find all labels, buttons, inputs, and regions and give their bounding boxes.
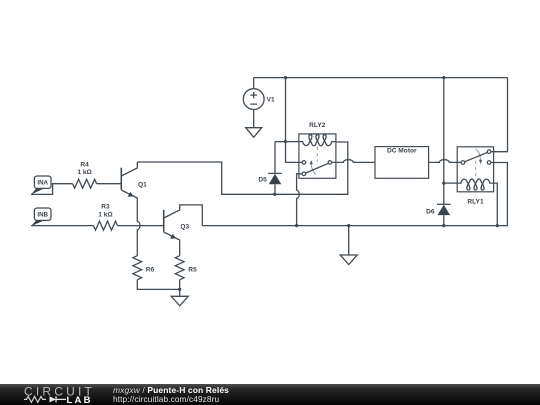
relay RLY2 <box>299 122 336 178</box>
flag INA <box>31 176 51 195</box>
wire ground stem <box>348 226 350 255</box>
logo resistor-diode <box>24 396 46 402</box>
svg-text:Q3: Q3 <box>180 224 189 231</box>
ground symbol lower left <box>171 296 188 306</box>
svg-text:R3: R3 <box>101 203 110 210</box>
node junction coil-right drop on rail <box>496 224 499 227</box>
voltage source V1 <box>243 78 275 128</box>
svg-text:RLY2: RLY2 <box>309 122 326 129</box>
svg-text:D6: D6 <box>426 208 435 215</box>
svg-text:RLY1: RLY1 <box>467 198 484 205</box>
svg-text:LAB: LAB <box>67 395 93 405</box>
wire R4 to Q1 base <box>97 183 121 185</box>
node junction RLY2 coil left <box>284 140 287 143</box>
svg-text:INA: INA <box>37 179 48 186</box>
wire Q1 collector to RLY2 coil right (via D5 anode row) <box>137 142 347 194</box>
wire top rail V+ <box>254 77 508 79</box>
wire RLY2 common to DC Motor left (hop over x=347.8) <box>332 160 375 163</box>
dashed actuator line RLY2 <box>316 147 318 162</box>
wire tee to RLY1 coil <box>444 182 457 184</box>
svg-text:DC Motor: DC Motor <box>387 147 417 154</box>
resistor R4 <box>73 162 97 189</box>
block DC Motor <box>375 147 429 179</box>
switch arm RLY2 <box>306 163 329 173</box>
contact terminals RLY1 <box>461 161 465 165</box>
diode D5 <box>258 142 281 195</box>
svg-text:INB: INB <box>37 211 48 218</box>
wire Q3 emitter to R5 <box>179 241 181 255</box>
node junction RLY1 coil left <box>442 182 445 185</box>
svg-text:V1: V1 <box>267 97 275 104</box>
node junction D5 anode <box>273 193 276 196</box>
wire INA to R4 <box>31 184 73 195</box>
arrow actuator RLY1 <box>476 149 481 160</box>
arrow actuator RLY2 <box>311 164 316 174</box>
svg-text:1 kΩ: 1 kΩ <box>98 211 113 218</box>
dashed actuator line RLY1 <box>475 161 477 178</box>
wire R3 to Q3 base <box>118 225 164 227</box>
wire vertical x=443.8 V+ to RLY1 coil left and D6 <box>443 78 445 205</box>
coil RLY1 <box>457 179 493 190</box>
svg-text:R5: R5 <box>188 266 197 273</box>
wire RLY2 coil left tee to D5 cathode <box>275 141 299 143</box>
ground under V1 <box>246 128 262 138</box>
wire Q1 emitter down to R6 (hop over base row of Q3) <box>137 199 140 255</box>
node junction top rail at x=285.5 <box>284 76 287 79</box>
coil RLY2 <box>299 135 336 146</box>
wire vertical x=285.5 from V+ to RLY2 common-in <box>286 78 303 163</box>
node junction R5 bottom <box>178 288 181 291</box>
wire R5 bottom to ground <box>179 280 181 297</box>
wire RLY2 NC contact down to ground rail (with hop) <box>297 174 303 226</box>
ground symbol center <box>340 255 357 265</box>
node junction ground tap <box>347 224 350 227</box>
wire INB to R3 <box>31 225 94 227</box>
wire R6 bottom to R5 bottom <box>137 280 179 290</box>
node junction top rail at x=443.8 <box>442 76 445 79</box>
resistor R5 <box>175 256 197 280</box>
svg-text:http://circuitlab.com/c49z8ru: http://circuitlab.com/c49z8ru <box>113 394 219 404</box>
svg-text:Q1: Q1 <box>138 182 147 189</box>
footer bar <box>0 384 540 405</box>
transistor Q1 <box>121 162 147 199</box>
node junction NC drop on ground rail <box>295 224 298 227</box>
svg-text:D5: D5 <box>258 176 267 183</box>
relay RLY1 <box>457 147 493 206</box>
node junction D6 anode on ground rail <box>442 224 445 227</box>
switch arm RLY1 <box>465 152 488 161</box>
svg-text:R6: R6 <box>146 266 155 273</box>
svg-text:R4: R4 <box>80 162 89 169</box>
resistor R3 <box>94 203 118 230</box>
transistor Q3 <box>164 205 203 242</box>
svg-text:1 kΩ: 1 kΩ <box>77 169 92 176</box>
wire RLY1 coil right down to ground rail <box>494 183 498 226</box>
contact terminals RLY2 <box>302 161 306 165</box>
diode D6 <box>426 204 450 225</box>
wire right drop to RLY1 NO contact <box>491 78 508 152</box>
resistor R6 <box>133 256 155 280</box>
wire DC Motor right to RLY1 common (hop over x=443.8) <box>429 160 462 163</box>
wire ground rail <box>202 163 507 226</box>
flag INB <box>31 208 51 226</box>
